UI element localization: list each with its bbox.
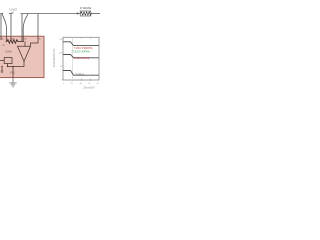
svg-text:RG: RG [11, 39, 15, 41]
svg-text:TJ(SO PWRPD): TJ(SO PWRPD) [74, 46, 93, 50]
svg-text:VSS: VSS [10, 71, 15, 74]
svg-text:TJ(SO DWM): TJ(SO DWM) [74, 56, 90, 60]
svg-text:GAIN: GAIN [5, 51, 11, 54]
svg-text:TJ(SO DDPAK): TJ(SO DDPAK) [72, 50, 90, 54]
svg-text:TJ(MS): TJ(MS) [75, 73, 84, 77]
svg-text:20ms/DIV: 20ms/DIV [83, 86, 95, 90]
svg-text:TEMPERATURE: TEMPERATURE [53, 48, 56, 67]
svg-text:IN-: IN- [24, 39, 27, 41]
svg-text:R SENSE: R SENSE [80, 6, 92, 10]
svg-text:Load: Load [9, 8, 17, 12]
